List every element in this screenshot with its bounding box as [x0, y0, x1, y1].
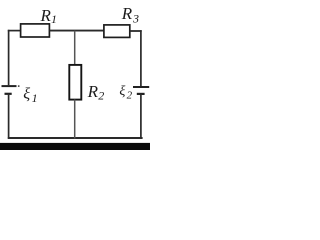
- svg-text:1: 1: [32, 91, 38, 105]
- wire bottom horizontal: [8, 137, 143, 139]
- wire right vertical top (corner to battery xi2): [140, 30, 142, 86]
- svg-text:ξ: ξ: [119, 84, 125, 99]
- wire top left stub (corner to R1): [8, 30, 21, 32]
- label EMF xi1: [23, 86, 37, 105]
- svg-text:R: R: [121, 4, 133, 23]
- resistor R2: [69, 65, 81, 100]
- svg-text:2: 2: [98, 88, 104, 102]
- wire right vertical bottom (battery xi2 to bottom corner): [140, 94, 142, 139]
- svg-text:R: R: [40, 6, 52, 25]
- label R2: [87, 82, 105, 102]
- resistor R3: [104, 25, 130, 38]
- resistor R1: [21, 24, 50, 37]
- battery xi1 short plate: [5, 93, 12, 95]
- wire top middle (R1 to R3 across node): [49, 30, 104, 32]
- bottom black bar: [0, 143, 150, 150]
- wire middle branch bottom (R2 to bottom wire): [74, 100, 76, 139]
- battery xi2 long plate: [133, 86, 149, 88]
- artifact dot right of xi1 plate: [18, 85, 20, 87]
- wire top right stub (R3 to right corner): [130, 30, 142, 32]
- svg-text:ξ: ξ: [23, 86, 30, 103]
- battery xi2 short plate: [137, 93, 145, 95]
- label EMF xi2: [119, 84, 132, 102]
- label R3: [121, 4, 139, 25]
- wire left vertical top (corner to battery xi1): [8, 30, 10, 85]
- svg-text:1: 1: [51, 12, 57, 26]
- battery xi1 long plate: [2, 85, 17, 87]
- label R1: [40, 6, 58, 26]
- svg-text:R: R: [87, 82, 99, 101]
- svg-text:2: 2: [127, 90, 133, 102]
- wire left vertical bottom (battery xi1 to bottom corner): [8, 94, 10, 139]
- svg-text:3: 3: [132, 11, 139, 25]
- node A junction / wire middle branch top (top wire to R2): [74, 31, 76, 66]
